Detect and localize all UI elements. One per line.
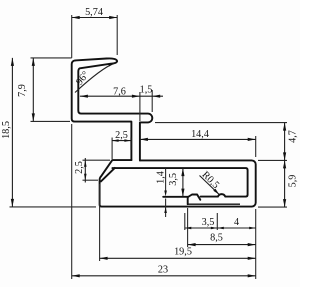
dim bottom 3.5 and 4 xyxy=(185,227,256,229)
svg-text:1,5: 1,5 xyxy=(140,85,153,96)
8.5 arrows xyxy=(188,243,196,246)
svg-text:7,9: 7,9 xyxy=(17,84,28,97)
leader R0.5 xyxy=(200,176,220,195)
svg-text:R0,5: R0,5 xyxy=(199,169,221,191)
svg-text:8,5: 8,5 xyxy=(210,233,223,244)
channel inner cavity top/right/bottom-right with bump R0.5 xyxy=(112,168,247,197)
ext 4.7/5.9 mid y=160.4 xyxy=(258,159,287,161)
slot bottom line xyxy=(188,203,240,205)
dim 18.5 xyxy=(11,58,13,207)
ext right x=255.7 below channel for 8.5/19.5/23 xyxy=(255,209,257,279)
cavity floor left part xyxy=(163,196,188,198)
dim 5.9 xyxy=(284,160,286,207)
svg-text:4: 4 xyxy=(234,217,239,228)
ext 2.5 vert top y=160.2 xyxy=(83,159,111,161)
18.5 arrows xyxy=(11,58,14,66)
ext 4.7 top y=122.6 from arm tip to right margin xyxy=(155,122,287,124)
svg-text:3,5: 3,5 xyxy=(202,217,215,228)
23 arrows xyxy=(72,274,80,277)
svg-text:4,7: 4,7 xyxy=(287,130,298,143)
7.9 arrows xyxy=(32,58,35,66)
svg-text:1,4: 1,4 xyxy=(156,171,167,184)
14.4 arrows xyxy=(140,138,148,141)
bottom 3.5 / 4 arrows xyxy=(185,227,192,230)
angle arc 96 xyxy=(75,63,114,92)
dim 7.6 / 1.5 shared line xyxy=(80,95,163,97)
slot left edge xyxy=(187,197,189,204)
svg-text:7,6: 7,6 xyxy=(113,87,126,98)
svg-text:19,5: 19,5 xyxy=(174,247,192,258)
ext 1.5 right x=152.2 xyxy=(151,90,153,112)
5.74 arrows xyxy=(72,16,80,19)
19.5 arrows xyxy=(100,257,108,260)
dim 8.5 xyxy=(188,244,256,246)
svg-text:23: 23 xyxy=(158,265,168,276)
1.4 outside arrows xyxy=(164,191,167,197)
ext bottom 3.5 left x=184.8 xyxy=(184,213,186,230)
dim 19.5 xyxy=(100,257,256,259)
svg-text:5,74: 5,74 xyxy=(85,7,103,18)
96 arc arrow xyxy=(108,63,114,66)
dim 23 xyxy=(72,275,256,277)
svg-text:2,5: 2,5 xyxy=(115,130,128,141)
3.5 inner height arrows xyxy=(181,168,184,176)
svg-text:2,5: 2,5 xyxy=(74,161,85,174)
ext 7.6/1.5 mid x=139.9 above arm xyxy=(139,92,141,121)
dim 3.5 inner height xyxy=(182,168,184,197)
R0.5 leader arrow xyxy=(213,189,219,195)
ext 18.5 bottom y=206.9 xyxy=(10,206,97,208)
svg-text:14,4: 14,4 xyxy=(191,129,209,140)
4.7 arrows xyxy=(283,123,286,131)
dim 4.7 xyxy=(284,123,286,161)
7.6 arrows xyxy=(80,95,88,98)
ext 5.9 bottom y=207.1 xyxy=(258,206,287,208)
ext 23 left x=71.7 xyxy=(71,124,73,279)
channel outer contour xyxy=(100,160,256,207)
dim 14.4 xyxy=(140,138,256,140)
svg-text:3,5: 3,5 xyxy=(168,173,179,186)
profile left wall outer edge, arm bottom, rib left edge xyxy=(72,60,132,160)
dim 2.5 horizontal xyxy=(112,140,131,142)
ext 8.5 left x=187.6 xyxy=(187,208,189,247)
ext 19.5 left x=99.6 xyxy=(99,184,101,261)
dim 2.5 vertical xyxy=(84,158,86,183)
ext 14.4 right x=255.7 above channel xyxy=(255,136,257,157)
ext 5.74 left / top corner xyxy=(71,15,73,58)
2.5 horizontal arrows xyxy=(112,139,119,142)
dim 5.74 xyxy=(72,17,118,19)
ext 7.9 bottom y=121.4 xyxy=(31,120,71,122)
inner chamfer line of foot xyxy=(101,168,115,182)
svg-text:18,5: 18,5 xyxy=(1,121,12,139)
ext 2.5 vert bottom y=180.2 xyxy=(83,179,99,181)
ext 5.74 right xyxy=(116,15,118,55)
1.5 right arrow (outside, pointing left) xyxy=(152,95,160,98)
ext bottom 3.5/4 mid x=217.3 xyxy=(216,213,218,230)
ext 2.5 horiz left x=112.1 xyxy=(111,138,113,160)
5.9 arrows xyxy=(283,160,286,168)
ext 1.4 dim line x=165.6 vertical through bottom wall xyxy=(165,169,167,193)
svg-text:96°: 96° xyxy=(74,69,91,87)
dim 7.9 xyxy=(32,58,34,122)
2.5 vertical arrows xyxy=(84,160,87,167)
svg-text:5,9: 5,9 xyxy=(287,175,298,188)
bump over slot xyxy=(188,195,200,200)
profile blade (drip edge, 96deg) top surface and underside xyxy=(75,58,152,160)
ext top horizontal y=57.9 to left dims xyxy=(31,57,72,59)
ext 2.5 horiz right x=130.9 xyxy=(130,138,132,151)
